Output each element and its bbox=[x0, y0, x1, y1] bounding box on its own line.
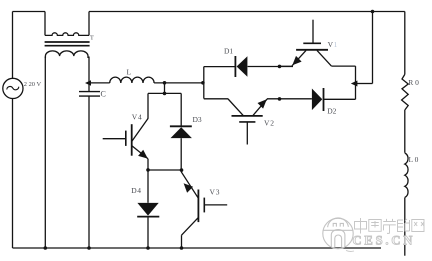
svg-text:C: C bbox=[101, 89, 106, 98]
svg-text:D4: D4 bbox=[131, 186, 141, 195]
svg-text:V2: V2 bbox=[264, 119, 275, 128]
svg-text:L 0: L 0 bbox=[409, 155, 419, 164]
svg-text:V3: V3 bbox=[210, 188, 221, 197]
svg-text:2 20 V: 2 20 V bbox=[24, 81, 42, 88]
svg-text:CES.CN: CES.CN bbox=[353, 234, 416, 248]
svg-text:R 0: R 0 bbox=[408, 78, 419, 87]
svg-text:D3: D3 bbox=[193, 115, 202, 124]
svg-text:D1: D1 bbox=[224, 47, 233, 56]
svg-text:V4: V4 bbox=[132, 112, 143, 121]
svg-text:1: 1 bbox=[334, 40, 338, 49]
svg-text:D2: D2 bbox=[327, 107, 336, 116]
svg-text:L: L bbox=[127, 68, 132, 77]
svg-text:T: T bbox=[90, 35, 94, 42]
